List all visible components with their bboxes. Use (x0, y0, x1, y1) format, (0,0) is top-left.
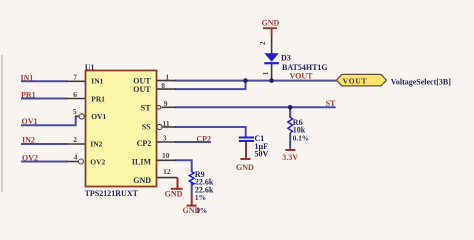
svg-text:ST: ST (326, 99, 336, 108)
svg-text:VOUT: VOUT (343, 76, 368, 85)
svg-text:4: 4 (74, 152, 78, 161)
svg-text:0.1%: 0.1% (293, 134, 309, 142)
svg-text:OV2: OV2 (90, 158, 105, 167)
svg-text:10k: 10k (293, 126, 306, 135)
svg-text:PR1: PR1 (91, 94, 105, 103)
svg-text:OV2: OV2 (22, 153, 38, 162)
svg-text:GND: GND (165, 190, 183, 199)
svg-text:1: 1 (262, 71, 270, 75)
svg-text:8: 8 (161, 81, 165, 90)
svg-text:TPS2121RUXT: TPS2121RUXT (85, 189, 139, 198)
svg-text:IN1: IN1 (91, 77, 103, 86)
svg-text:GND: GND (133, 176, 151, 185)
svg-text:OV1: OV1 (22, 117, 38, 126)
svg-text:U1: U1 (85, 63, 95, 72)
svg-text:OV1: OV1 (91, 112, 106, 121)
svg-text:PR1: PR1 (21, 90, 36, 99)
svg-text:VOUT: VOUT (290, 72, 314, 81)
svg-text:IN1: IN1 (21, 73, 34, 82)
svg-text:6: 6 (73, 90, 77, 99)
svg-text:CP2: CP2 (196, 134, 211, 143)
svg-text:1: 1 (166, 72, 170, 81)
svg-text:7: 7 (73, 73, 77, 82)
svg-text:VoltageSelect[3B]: VoltageSelect[3B] (391, 78, 451, 87)
svg-text:ILIM: ILIM (132, 158, 152, 167)
svg-text:3.3V: 3.3V (282, 153, 298, 162)
svg-text:GND: GND (236, 163, 254, 172)
svg-text:CP2: CP2 (137, 139, 152, 148)
svg-text:GND: GND (262, 19, 280, 28)
svg-text:1%: 1% (196, 206, 207, 215)
svg-text:3: 3 (163, 133, 167, 142)
svg-text:SS: SS (142, 123, 151, 132)
svg-text:BAT54HT1G: BAT54HT1G (282, 63, 328, 72)
svg-text:IN2: IN2 (90, 140, 102, 149)
svg-text:ST: ST (141, 104, 151, 113)
svg-text:12: 12 (163, 167, 171, 176)
svg-text:IN2: IN2 (22, 136, 35, 145)
svg-text:2: 2 (259, 41, 267, 45)
svg-text:OUT: OUT (133, 85, 151, 94)
svg-text:11: 11 (163, 119, 170, 128)
svg-text:9: 9 (164, 99, 168, 108)
svg-text:10: 10 (162, 151, 170, 160)
svg-text:50V: 50V (255, 149, 269, 158)
svg-text:2: 2 (73, 135, 77, 144)
svg-text:D3: D3 (281, 54, 291, 63)
svg-text:5: 5 (73, 107, 77, 116)
svg-text:1%: 1% (195, 193, 206, 202)
